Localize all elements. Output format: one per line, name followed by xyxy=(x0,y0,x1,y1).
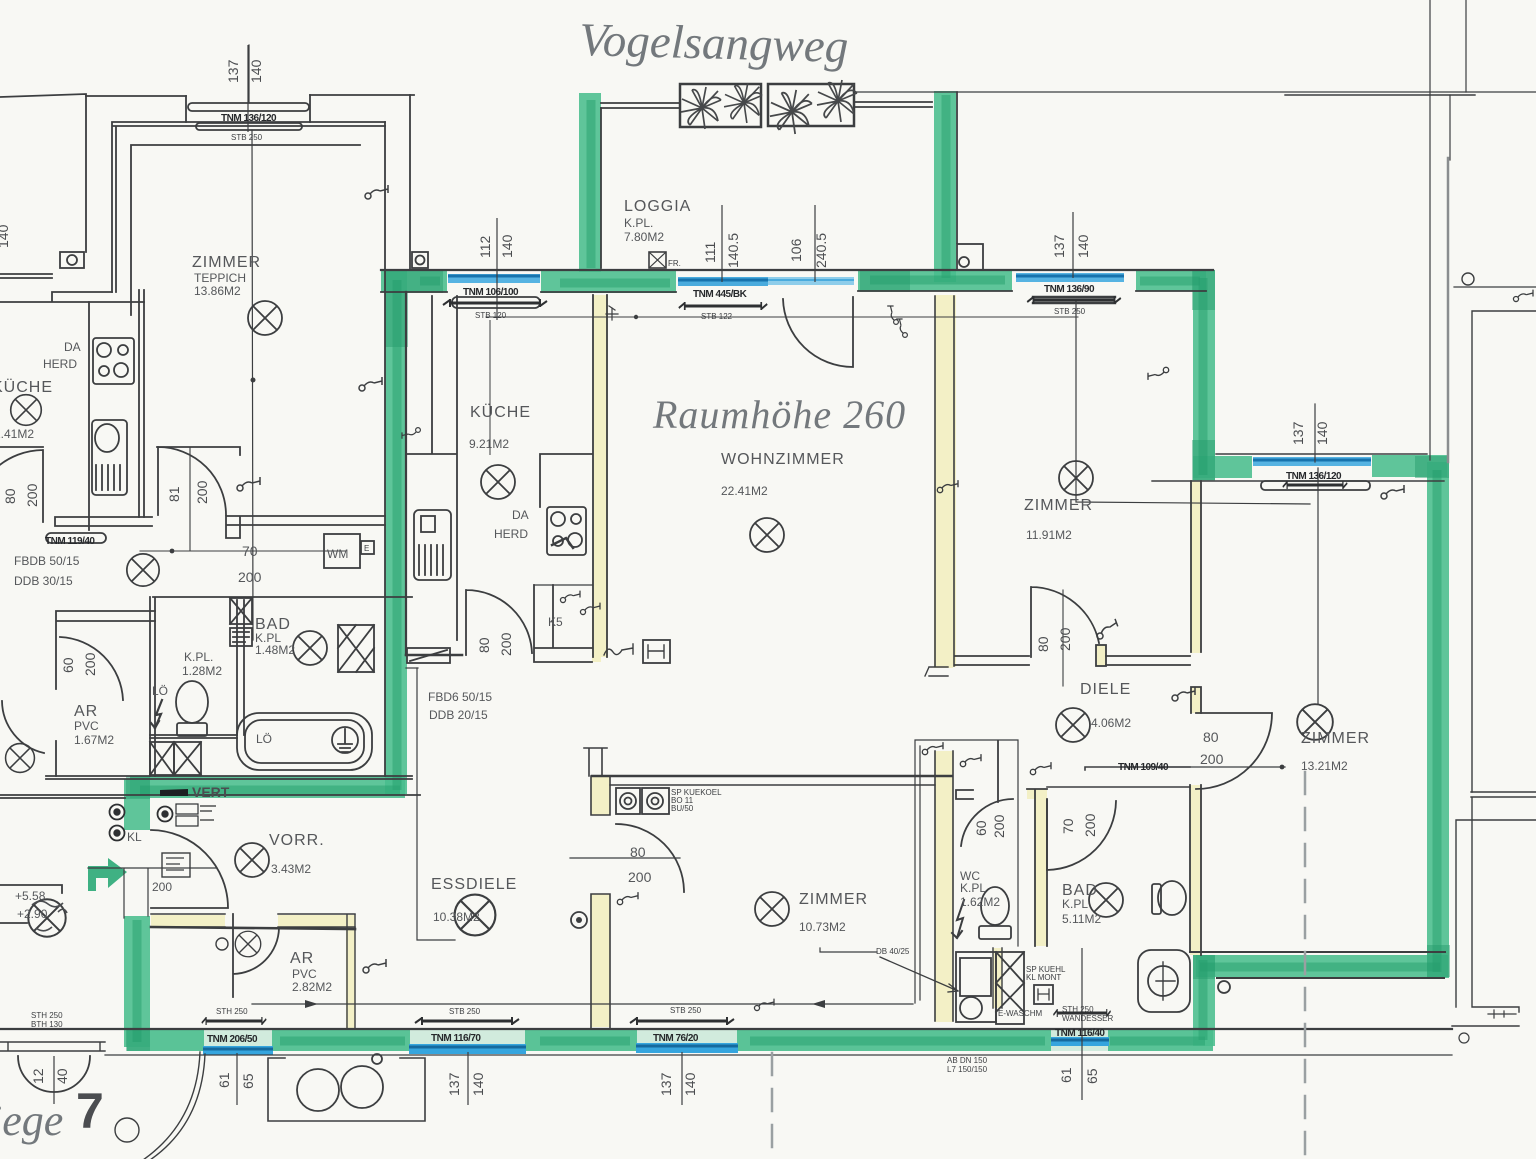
dim line loggia wide xyxy=(814,205,816,282)
svg-text:ZIMMER: ZIMMER xyxy=(1024,497,1093,514)
livingroom door leaf+arc (loggia side) xyxy=(783,297,853,367)
zimmer-S label leader xyxy=(880,957,958,992)
bottom-right green step wall lines xyxy=(1190,952,1445,978)
lamp kueche subject xyxy=(481,465,515,499)
essdiele door dim line xyxy=(570,857,680,859)
svg-text:13.21M2: 13.21M2 xyxy=(1301,759,1348,773)
svg-text:STB 250: STB 250 xyxy=(231,133,263,142)
svg-text:TNM 116/40: TNM 116/40 xyxy=(1055,1028,1105,1039)
svg-text:VERT: VERT xyxy=(192,784,230,800)
wc west wall edges xyxy=(935,751,953,1021)
window kitchen TNM106/100 blue xyxy=(448,274,540,283)
property line verticals NE xyxy=(1430,0,1466,460)
neighbor bottom window rails xyxy=(0,1042,105,1051)
svg-text:DB 40/25: DB 40/25 xyxy=(876,947,910,956)
green loggia east pier xyxy=(934,91,956,282)
neighbor stove xyxy=(93,338,134,384)
zimmer-SE window feed xyxy=(1315,404,1318,704)
svg-text:137: 137 xyxy=(446,1072,462,1096)
neighbor kpl room wall xyxy=(150,597,412,776)
dim line kitchen window xyxy=(496,218,498,320)
diele->zimmer-SE door leaf+arc xyxy=(1196,713,1272,789)
essdiele kitchenette boxes xyxy=(616,788,640,814)
svg-text:112: 112 xyxy=(477,235,493,258)
kitchen interior counter lines xyxy=(406,296,592,640)
svg-text:200: 200 xyxy=(1082,813,1098,837)
lintel bar window bad xyxy=(1053,1009,1110,1017)
wall above SE window xyxy=(1216,453,1427,455)
svg-text:80: 80 xyxy=(1203,729,1219,745)
wall diele north fill xyxy=(1097,645,1106,666)
svg-text:140.5: 140.5 xyxy=(725,233,741,268)
svg-text:22.41M2: 22.41M2 xyxy=(721,484,768,498)
window loggia wide blue xyxy=(768,277,854,285)
wc washbasin xyxy=(956,952,996,1022)
lamp diele xyxy=(1056,708,1090,742)
svg-text:ZIMMER: ZIMMER xyxy=(192,254,261,271)
lamp neighbor entry xyxy=(6,744,35,773)
k5 closet xyxy=(534,585,592,662)
neighbor bath top wall xyxy=(56,611,155,689)
green east vertical xyxy=(1427,462,1449,978)
svg-text:TNM 136/90: TNM 136/90 xyxy=(1044,284,1095,295)
window bad TNM116/40 blue xyxy=(1051,1037,1109,1046)
green highlighter: apartment boundary xyxy=(127,91,1448,1047)
neighbor bad valve cluster xyxy=(230,598,252,624)
vent shaft xyxy=(996,952,1024,1024)
svg-text:LÖ: LÖ xyxy=(256,732,272,746)
svg-text:LOGGIA: LOGGIA xyxy=(624,198,691,215)
neighbor south wall band xyxy=(0,776,420,798)
wc/bad divider edges xyxy=(993,948,1002,1008)
wall wc/bad divider xyxy=(993,948,1002,1008)
svg-text:137: 137 xyxy=(658,1072,674,1096)
fr box loggia xyxy=(649,252,666,268)
svg-text:STB 122: STB 122 xyxy=(701,312,733,321)
dim line bottom window bad xyxy=(1081,948,1083,1100)
zimmer-NE south wall xyxy=(955,656,1190,665)
room dim line horizontal xyxy=(252,1003,913,1005)
svg-text:80: 80 xyxy=(1035,636,1051,652)
svg-text:200: 200 xyxy=(152,880,172,894)
green entry west upper xyxy=(124,779,150,830)
wall essdiele/zimmer divider upper xyxy=(591,776,610,815)
svg-text:200: 200 xyxy=(498,632,514,656)
svg-text:TNM 119/40: TNM 119/40 xyxy=(45,536,95,547)
bad door leaf+arc xyxy=(1047,800,1116,870)
svg-text:AR: AR xyxy=(290,950,314,967)
lamp zimmer-NW xyxy=(248,301,282,335)
green corner overlap patches xyxy=(126,269,1450,1051)
window zimmer SE TNM136/120 blue xyxy=(1253,457,1371,466)
neighbor kitchen counter bottom wall xyxy=(55,517,152,526)
party wall neighbor/subject xyxy=(385,95,410,776)
svg-text:70: 70 xyxy=(242,543,258,559)
kitchen dim continuation xyxy=(489,320,491,455)
svg-text:+2.90: +2.90 xyxy=(17,907,48,921)
green entry west lower xyxy=(124,916,150,1047)
ar south walls dark edges xyxy=(151,914,355,927)
dim line loggia door xyxy=(721,205,723,282)
zimmer-NW bottom wall xyxy=(226,516,385,538)
green bad east step vertical xyxy=(1193,955,1215,1046)
green top band seg4 corner xyxy=(1136,269,1206,291)
neighbor sink unit xyxy=(92,420,127,495)
svg-text:Vogelsangweg: Vogelsangweg xyxy=(579,14,849,73)
svg-text:DA: DA xyxy=(512,508,529,522)
lamp neighbor hall xyxy=(127,554,159,586)
svg-text:STH 250: STH 250 xyxy=(216,1007,248,1016)
ge-g label cluster xyxy=(176,804,216,826)
bath block outline xyxy=(915,740,1018,1003)
bad toilet xyxy=(1158,881,1186,915)
neighbor window NW inner bar xyxy=(196,123,302,130)
svg-text:TNM 445/BK: TNM 445/BK xyxy=(693,289,748,300)
svg-text:ZIMMER: ZIMMER xyxy=(799,891,868,908)
wall essdiele/zimmer divider lower xyxy=(591,894,610,1027)
green top band seg1 (corner at kitchen window) xyxy=(381,270,447,292)
vorr->kueche door leaf+arc xyxy=(466,590,532,655)
neighbor-left outer wall top xyxy=(0,94,86,252)
svg-text:DA: DA xyxy=(64,340,81,354)
dim line NW window xyxy=(247,45,249,132)
wall wc west xyxy=(935,751,953,1022)
green top band seg3 xyxy=(858,269,1012,291)
lintel bar loggia door xyxy=(679,302,767,310)
neighbor window W bar xyxy=(46,533,106,543)
window essdiele TNM116/70 blue xyxy=(409,1044,526,1054)
diele door dim line xyxy=(1062,590,1064,686)
neighbor-left chimney nib xyxy=(60,252,84,268)
lamp stairs landing xyxy=(28,899,65,936)
green west vertical (kitchen side) xyxy=(385,271,407,794)
svg-text:STH 250: STH 250 xyxy=(1062,1005,1094,1014)
neighbor bathtub xyxy=(237,713,372,770)
window bottom TNM206/50 blue xyxy=(203,1046,273,1055)
svg-text:7.80M2: 7.80M2 xyxy=(624,230,664,244)
svg-text:TNM 136/120: TNM 136/120 xyxy=(221,113,277,124)
neighbor door mid leaf+arc xyxy=(158,447,226,515)
svg-text:STB 250: STB 250 xyxy=(670,1006,702,1015)
entry dim box xyxy=(162,853,190,877)
svg-text:200: 200 xyxy=(238,569,262,585)
svg-text:9.21M2: 9.21M2 xyxy=(469,437,509,451)
zimmer-NE window bars xyxy=(1033,297,1115,303)
lamp vorraum xyxy=(235,843,269,877)
svg-text:1.62M2: 1.62M2 xyxy=(960,895,1000,909)
green darker core streaks xyxy=(137,95,1440,1042)
green bottom band seg3 xyxy=(525,1029,637,1051)
svg-text:FR.: FR. xyxy=(668,259,681,268)
svg-text:70: 70 xyxy=(1060,818,1076,834)
lintel bar window ar xyxy=(202,1017,266,1025)
svg-text:K5: K5 xyxy=(548,615,563,629)
svg-text:K.PL.: K.PL. xyxy=(184,650,213,664)
wall ar east xyxy=(346,915,355,1029)
diele door nib xyxy=(1096,645,1106,666)
bad washbasin xyxy=(1138,950,1190,1012)
lamp zimmer-SE xyxy=(1297,704,1333,740)
svg-text:WM: WM xyxy=(327,547,348,561)
svg-text:137: 137 xyxy=(1290,421,1306,445)
svg-text:KÜCHE: KÜCHE xyxy=(0,378,53,396)
vert wedge xyxy=(160,789,188,796)
neighbor shower xyxy=(338,625,374,672)
svg-text:200: 200 xyxy=(194,480,210,504)
window loggia door TNM445 blue xyxy=(678,277,768,286)
neighbor hall door arc W xyxy=(2,701,44,753)
shaft box bottom xyxy=(268,1058,425,1121)
left edge wall stub xyxy=(0,274,52,278)
svg-text:80: 80 xyxy=(2,488,18,504)
window zimmer NE TNM136/90 blue xyxy=(1016,273,1124,282)
kl circled dots xyxy=(110,805,173,841)
svg-text:ZIMMER: ZIMMER xyxy=(1301,730,1370,747)
svg-text:60: 60 xyxy=(973,820,989,836)
kitchen south wall xyxy=(406,654,462,657)
neighbor wc west wall lower xyxy=(55,741,57,776)
svg-text:STH 250: STH 250 xyxy=(31,1011,63,1020)
east rooms divider dark edges xyxy=(1191,481,1201,713)
east divider wall lower xyxy=(1190,785,1201,955)
green bottom band seg4 xyxy=(737,1029,1051,1051)
green east room corner vertical xyxy=(1193,270,1215,480)
lintel bar window zimmer-S xyxy=(630,1017,734,1025)
svg-text:TNM 206/50: TNM 206/50 xyxy=(207,1034,258,1045)
neighbor-left top wall segments xyxy=(86,95,414,96)
svg-text:TNM 76/20: TNM 76/20 xyxy=(653,1033,699,1044)
svg-text:7: 7 xyxy=(76,1083,104,1139)
property line top xyxy=(854,91,1536,93)
dim line neighbor entrance xyxy=(53,1056,55,1104)
svg-text:K.PL: K.PL xyxy=(1062,897,1088,911)
svg-text:WOHNZIMMER: WOHNZIMMER xyxy=(721,451,845,468)
svg-text:200: 200 xyxy=(991,814,1007,838)
svg-text:140: 140 xyxy=(248,59,264,83)
dashed axis line SE xyxy=(1304,772,1307,1159)
green loggia west pier xyxy=(579,93,601,272)
svg-text:1.67M2: 1.67M2 xyxy=(74,733,114,747)
wc lightning xyxy=(952,900,964,938)
svg-text:137: 137 xyxy=(225,59,241,83)
green bottom band wash xyxy=(127,1029,1213,1051)
livingroom east wall foot xyxy=(925,667,948,676)
antenna symbols xyxy=(365,185,388,199)
wc door leaf+arc xyxy=(961,741,1013,846)
svg-text:10.38M2: 10.38M2 xyxy=(433,910,480,924)
subject top wall faces xyxy=(381,269,1213,271)
divider nib cap xyxy=(584,748,607,776)
svg-text:61: 61 xyxy=(1058,1067,1074,1083)
svg-text:2.82M2: 2.82M2 xyxy=(292,980,332,994)
essdiele->zimmer door arc xyxy=(616,824,684,892)
loggia rails xyxy=(601,102,932,108)
dim line bottom window ar xyxy=(236,1053,238,1105)
svg-text:+5.58: +5.58 xyxy=(15,889,46,903)
svg-text:TNM 109/40: TNM 109/40 xyxy=(1118,762,1169,773)
lamp zimmer-S xyxy=(755,892,789,926)
wall below SE window xyxy=(1152,480,1444,482)
svg-text:80: 80 xyxy=(476,637,492,653)
neighbor kitchen counter xyxy=(89,290,144,530)
lamp ar small xyxy=(235,931,261,957)
green bottom band seg1 xyxy=(127,1029,204,1051)
svg-text:1.28M2: 1.28M2 xyxy=(182,664,222,678)
neighbor door mid dim line xyxy=(140,448,345,551)
neighbor landing box xyxy=(0,885,62,923)
bad north wall xyxy=(1047,767,1190,787)
essdiele threshold dot xyxy=(571,912,587,928)
svg-text:DDB 30/15: DDB 30/15 xyxy=(14,574,73,588)
kitchen south shelf xyxy=(407,648,450,663)
kitchen/livingroom divider dark edges xyxy=(593,295,607,657)
wall east rooms divider xyxy=(1191,481,1201,653)
svg-text:12: 12 xyxy=(30,1068,46,1084)
green bottom band seg5 xyxy=(1108,1029,1213,1051)
lamp zimmer-NE xyxy=(1059,461,1093,495)
ar door leaf+arc xyxy=(233,914,279,997)
svg-text:200: 200 xyxy=(1057,627,1073,651)
neighbor tub ground symbol xyxy=(332,727,358,753)
dim line bottom window zimmer-S xyxy=(681,1052,683,1105)
svg-text:11.91M2: 11.91M2 xyxy=(1026,528,1072,542)
svg-text:200: 200 xyxy=(24,483,40,507)
subject sink unit xyxy=(414,510,451,580)
essdiele north wall xyxy=(592,775,952,777)
neighbor window NW outer bar xyxy=(188,103,309,111)
wall kitchen/livingroom divider xyxy=(593,295,608,657)
green bottom band seg2 xyxy=(272,1029,410,1051)
loggia side lines xyxy=(601,92,957,268)
lamp neighbor bath xyxy=(293,631,327,665)
neighbor hall wall xyxy=(0,447,240,455)
lamp bad xyxy=(1089,883,1123,917)
dims rotated xyxy=(0,59,1330,1096)
svg-text:200: 200 xyxy=(628,869,652,885)
neighbor wm x-boxes xyxy=(150,742,174,775)
svg-text:K.PL: K.PL xyxy=(960,881,986,895)
wm box xyxy=(324,534,360,568)
svg-text:E: E xyxy=(364,544,369,553)
wall hall column top xyxy=(934,580,953,668)
svg-text:60: 60 xyxy=(60,657,76,673)
green VERT horizontal xyxy=(130,776,405,798)
svg-text:KL MONT: KL MONT xyxy=(1026,973,1061,982)
svg-text:TEPPICH: TEPPICH xyxy=(194,271,246,285)
lintel bar window essdiele xyxy=(415,1017,519,1025)
svg-text:LÖ: LÖ xyxy=(152,684,168,698)
svg-text:140: 140 xyxy=(0,224,11,248)
lamp kueche neighbor xyxy=(11,395,42,426)
livingroom east wall edges xyxy=(935,296,954,666)
svg-text:VORR.: VORR. xyxy=(269,832,325,849)
svg-text:BTH 130: BTH 130 xyxy=(31,1020,63,1029)
zimmer-NW window dim line xyxy=(249,45,253,640)
svg-text:DIELE: DIELE xyxy=(1080,681,1131,698)
svg-text:111: 111 xyxy=(702,242,718,263)
zimmer-NW room walls xyxy=(112,122,385,292)
ar east wall edges xyxy=(347,915,355,1029)
kitchen window lintel bar xyxy=(452,297,540,308)
svg-text:200: 200 xyxy=(82,652,98,676)
lintel bar NE window xyxy=(1027,296,1121,304)
zimmer-NW wall jog to kitchen xyxy=(0,292,144,302)
neighbor toilet xyxy=(176,681,208,723)
lamp wohnzimmer xyxy=(750,518,784,552)
svg-text:200: 200 xyxy=(1200,751,1224,767)
wall bad east xyxy=(1190,785,1201,955)
svg-text:TNM 136/120: TNM 136/120 xyxy=(1286,471,1342,482)
svg-text:61: 61 xyxy=(216,1072,232,1088)
svg-text:HERD: HERD xyxy=(494,527,528,541)
entry frame lines xyxy=(88,868,217,918)
neighbor-right loggia xyxy=(1452,792,1536,1026)
svg-text:STB 120: STB 120 xyxy=(475,311,507,320)
planter box west xyxy=(680,84,761,127)
svg-text:KL: KL xyxy=(127,830,142,844)
svg-text:3.43M2: 3.43M2 xyxy=(271,862,311,876)
svg-text:K.PL.: K.PL. xyxy=(624,216,653,230)
green zimmer window stub west xyxy=(1193,456,1252,478)
svg-text:AR: AR xyxy=(74,703,98,720)
svg-text:13.86M2: 13.86M2 xyxy=(194,284,241,298)
green top band seg2 xyxy=(541,271,676,293)
svg-text:4.06M2: 4.06M2 xyxy=(1091,716,1131,730)
landing scribbles xyxy=(32,901,67,931)
zimmer-SE dim line xyxy=(1152,766,1285,768)
zimmer-NE lamp feed line xyxy=(1076,300,1310,504)
svg-text:240.5: 240.5 xyxy=(813,233,829,268)
neighbor door W leaf+arc xyxy=(0,450,43,522)
svg-text:40: 40 xyxy=(54,1068,70,1084)
window zimmer S TNM76/20 blue xyxy=(636,1043,738,1053)
svg-text:1.48M2: 1.48M2 xyxy=(255,643,295,657)
wc inner stub xyxy=(956,790,973,799)
svg-text:TNM 106/100: TNM 106/100 xyxy=(463,287,519,298)
dashed axis line S xyxy=(771,1053,774,1159)
svg-text:65: 65 xyxy=(1084,1068,1100,1084)
svg-text:140: 140 xyxy=(499,234,515,258)
neighbor bath mid wall xyxy=(150,735,237,738)
essdiele divider edges xyxy=(591,776,610,1028)
lintel bar zimmer-SE window xyxy=(1283,481,1347,489)
green south-east horizontal xyxy=(1196,955,1448,977)
th box livingroom xyxy=(643,640,670,663)
svg-text:80: 80 xyxy=(630,844,646,860)
kitchen drop line xyxy=(417,668,455,940)
wall vorraum/ar south xyxy=(151,915,225,927)
svg-text:140: 140 xyxy=(1075,234,1091,258)
svg-text:140: 140 xyxy=(1314,421,1330,445)
th squiggle xyxy=(604,644,633,655)
green east window stub xyxy=(1372,455,1447,477)
svg-text:137: 137 xyxy=(1051,234,1067,258)
stairwell circle xyxy=(115,1118,139,1142)
dim line bottom window essdiele xyxy=(467,1052,469,1105)
zimmer-NW inner partition xyxy=(131,145,360,315)
svg-text:10.73M2: 10.73M2 xyxy=(799,920,846,934)
green entry arrow xyxy=(88,858,127,891)
wall bad west xyxy=(1027,789,1047,799)
svg-text:BU/50: BU/50 xyxy=(671,804,694,813)
k5 top wall xyxy=(534,584,592,586)
threshold tick A xyxy=(606,306,618,320)
svg-text:140: 140 xyxy=(682,1072,698,1096)
svg-text:5.11M2: 5.11M2 xyxy=(1062,912,1101,926)
svg-text:ESSDIELE: ESSDIELE xyxy=(431,876,517,893)
party wall nib box xyxy=(412,252,428,268)
dim line NE window xyxy=(1072,212,1074,278)
